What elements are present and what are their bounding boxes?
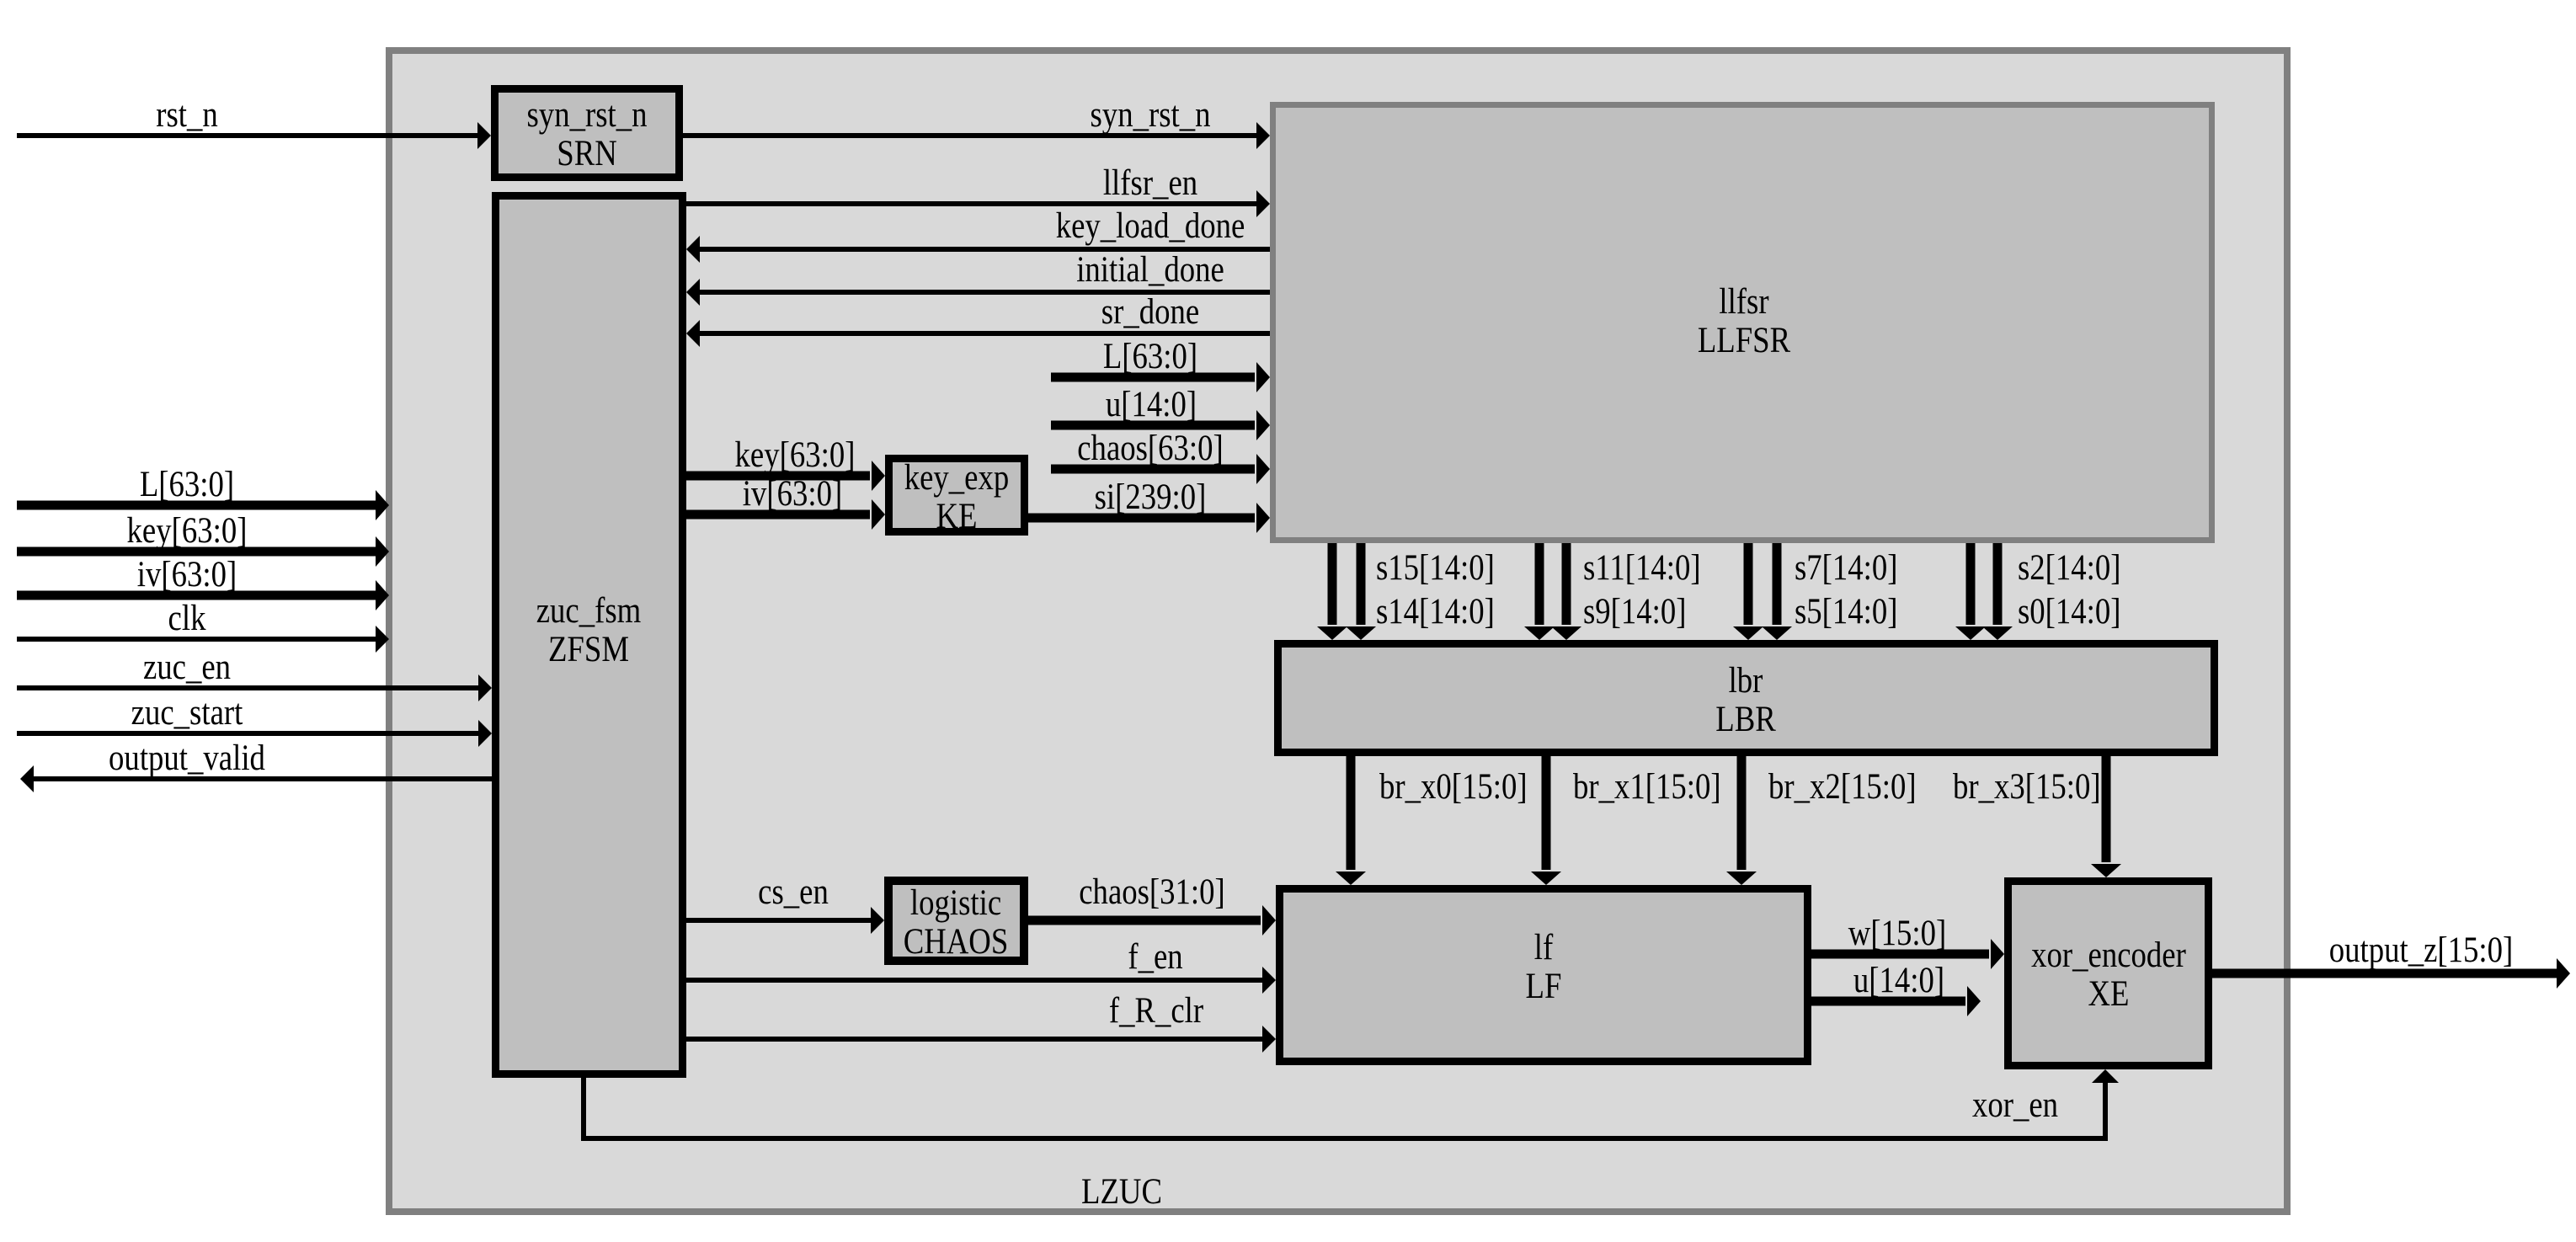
svg-text:syn_rst_n: syn_rst_n <box>1091 95 1211 135</box>
wire u[14:0] to LLFSR <box>1051 385 1270 440</box>
block XE (xor_encoder) <box>2008 882 2209 1066</box>
wire syn_rst_n <box>683 95 1270 149</box>
svg-text:xor_en: xor_en <box>1972 1085 2058 1125</box>
wire s5[14:0] <box>1762 543 1898 640</box>
svg-text:output_valid: output_valid <box>109 738 265 778</box>
svg-text:key[63:0]: key[63:0] <box>127 511 248 551</box>
block LBR (lbr) <box>1278 644 2215 753</box>
wire L[63:0] to LLFSR <box>1051 337 1270 392</box>
svg-text:clk: clk <box>168 599 206 638</box>
wire chaos[63:0] to LLFSR <box>1051 429 1270 484</box>
svg-text:s14[14:0]: s14[14:0] <box>1376 592 1495 632</box>
svg-text:s5[14:0]: s5[14:0] <box>1795 592 1898 632</box>
wire key_load_done <box>686 206 1270 263</box>
svg-text:s11[14:0]: s11[14:0] <box>1583 548 1701 588</box>
svg-text:iv[63:0]: iv[63:0] <box>137 555 237 594</box>
wire chaos[31:0] <box>1028 872 1276 935</box>
wire xor_en <box>584 1069 2119 1138</box>
svg-text:si[239:0]: si[239:0] <box>1095 477 1207 517</box>
wire br_x0[15:0] <box>1336 756 1528 885</box>
svg-text:w[15:0]: w[15:0] <box>1848 914 1946 953</box>
svg-text:chaos[31:0]: chaos[31:0] <box>1079 872 1225 912</box>
wire s15[14:0] <box>1317 543 1495 640</box>
outer module box LZUC <box>389 51 2287 1212</box>
svg-text:LLFSR: LLFSR <box>1698 321 1791 360</box>
svg-text:lf: lf <box>1534 928 1554 967</box>
svg-text:u[14:0]: u[14:0] <box>1853 961 1944 1000</box>
wire s2[14:0] <box>1955 543 2121 640</box>
wire s9[14:0] <box>1551 543 1687 640</box>
wire s0[14:0] <box>1982 543 2121 640</box>
svg-text:cs_en: cs_en <box>758 872 829 912</box>
svg-text:chaos[63:0]: chaos[63:0] <box>1077 429 1224 468</box>
svg-text:br_x2[15:0]: br_x2[15:0] <box>1768 767 1917 807</box>
svg-text:zuc_fsm: zuc_fsm <box>536 591 642 631</box>
block ZFSM (zuc_fsm) <box>496 196 683 1074</box>
block LF (lf) <box>1280 889 1808 1062</box>
wire u[14:0] from LF <box>1811 961 1981 1016</box>
wire llfsr_en <box>686 163 1270 217</box>
svg-text:rst_n: rst_n <box>156 95 218 135</box>
svg-text:SRN: SRN <box>557 134 617 173</box>
svg-text:s0[14:0]: s0[14:0] <box>2018 592 2121 632</box>
svg-text:f_en: f_en <box>1128 937 1182 977</box>
svg-text:LBR: LBR <box>1715 700 1776 739</box>
svg-text:syn_rst_n: syn_rst_n <box>527 95 648 135</box>
svg-text:output_z[15:0]: output_z[15:0] <box>2329 930 2514 970</box>
svg-text:u[14:0]: u[14:0] <box>1106 385 1197 424</box>
svg-text:sr_done: sr_done <box>1101 292 1199 332</box>
svg-text:XE: XE <box>2088 974 2130 1014</box>
svg-text:s15[14:0]: s15[14:0] <box>1376 548 1495 588</box>
wire rst_n input <box>17 95 491 149</box>
svg-text:LZUC: LZUC <box>1081 1172 1162 1212</box>
svg-text:f_R_clr: f_R_clr <box>1109 991 1203 1031</box>
svg-text:br_x3[15:0]: br_x3[15:0] <box>1953 767 2101 807</box>
svg-text:llfsr: llfsr <box>1719 282 1768 322</box>
block LLFSR (llfsr) <box>1273 105 2212 541</box>
svg-text:key[63:0]: key[63:0] <box>735 435 856 475</box>
wire s7[14:0] <box>1733 543 1898 640</box>
svg-text:CHAOS: CHAOS <box>904 922 1009 962</box>
wire initial_done <box>686 250 1270 306</box>
svg-text:iv[63:0]: iv[63:0] <box>743 474 842 514</box>
wire s11[14:0] <box>1524 543 1701 640</box>
wire iv[63:0] input <box>17 555 389 610</box>
block KE (key_exp) <box>889 458 1025 536</box>
wire L[63:0] input <box>17 465 389 520</box>
wire output_valid output <box>20 738 492 792</box>
wire iv[63:0] to KE <box>686 474 885 530</box>
block SRN (syn_rst_n) <box>495 89 680 178</box>
svg-text:xor_encoder: xor_encoder <box>2031 935 2186 975</box>
svg-text:s9[14:0]: s9[14:0] <box>1583 592 1687 632</box>
wire br_x3[15:0] <box>1953 756 2121 877</box>
svg-text:logistic: logistic <box>910 883 1001 923</box>
svg-text:L[63:0]: L[63:0] <box>1103 337 1197 376</box>
svg-text:key_exp: key_exp <box>904 458 1010 498</box>
wire f_R_clr <box>686 991 1276 1053</box>
label LZUC <box>1081 1172 1162 1212</box>
svg-text:llfsr_en: llfsr_en <box>1103 163 1197 203</box>
wire w[15:0] <box>1811 914 2004 969</box>
wire sr_done <box>686 292 1270 347</box>
wire clk input <box>17 599 389 653</box>
wire s14[14:0] <box>1346 543 1495 640</box>
svg-text:lbr: lbr <box>1729 661 1763 701</box>
svg-text:key_load_done: key_load_done <box>1056 206 1245 246</box>
svg-text:zuc_en: zuc_en <box>143 648 231 687</box>
wire cs_en <box>686 872 884 934</box>
wire br_x2[15:0] <box>1726 756 1917 885</box>
svg-text:s7[14:0]: s7[14:0] <box>1795 548 1898 588</box>
wire f_en <box>686 937 1276 994</box>
wire key[63:0] input <box>17 511 389 567</box>
svg-text:KE: KE <box>936 497 978 536</box>
svg-text:ZFSM: ZFSM <box>548 630 629 669</box>
svg-text:br_x1[15:0]: br_x1[15:0] <box>1573 767 1721 807</box>
wire key[63:0] to KE <box>686 435 885 491</box>
wire si[239:0] KE to LLFSR <box>1028 477 1270 533</box>
svg-text:LF: LF <box>1526 967 1562 1006</box>
svg-text:zuc_start: zuc_start <box>131 693 243 733</box>
wire zuc_start input <box>17 693 492 747</box>
svg-text:L[63:0]: L[63:0] <box>140 465 234 504</box>
wire zuc_en input <box>17 648 492 701</box>
block CHAOS (logistic) <box>888 881 1024 962</box>
svg-text:s2[14:0]: s2[14:0] <box>2018 548 2121 588</box>
svg-text:br_x0[15:0]: br_x0[15:0] <box>1379 767 1528 807</box>
wire output_z[15:0] <box>2212 930 2570 989</box>
wire br_x1[15:0] <box>1531 756 1721 885</box>
svg-text:initial_done: initial_done <box>1076 250 1224 290</box>
